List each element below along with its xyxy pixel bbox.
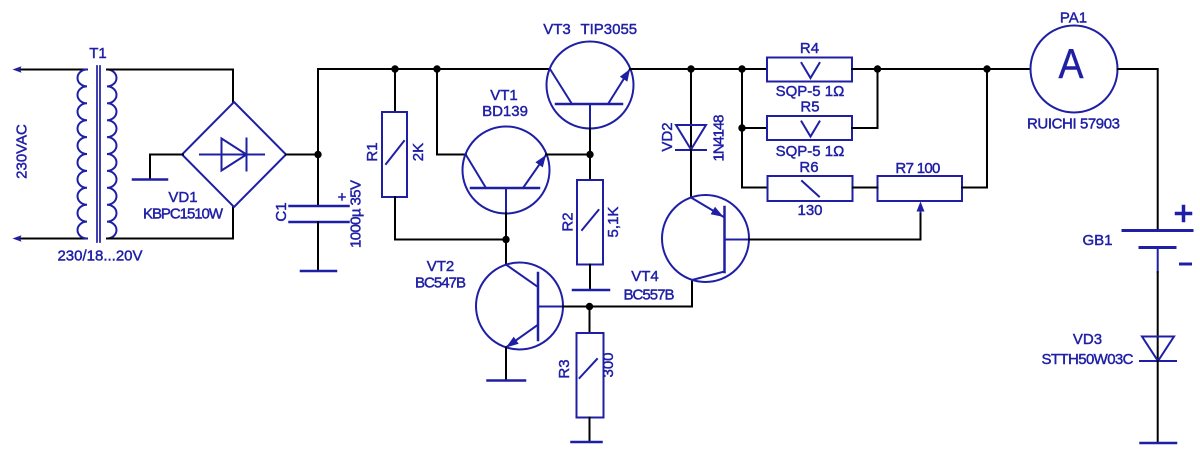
resistor R7 (878, 176, 963, 201)
ground R3 (572, 441, 602, 444)
node R5 branch top (738, 65, 745, 72)
svg-text:T1: T1 (89, 45, 107, 62)
transistor VT4 (662, 195, 749, 282)
node VT1 base (502, 236, 509, 243)
wire PA1 right to battery (1118, 69, 1158, 229)
label GB1 minus (1181, 263, 1191, 266)
svg-text:C1: C1 (273, 202, 290, 221)
svg-text:SQP-5 1Ω: SQP-5 1Ω (776, 143, 845, 160)
arrow R7 wiper (920, 206, 922, 212)
wire VT1 base lead (505, 213, 507, 265)
ammeter PA1 (1031, 26, 1118, 113)
svg-text:TIP3055: TIP3055 (580, 21, 637, 38)
transistor VT1 (463, 127, 550, 214)
resistor R1 (382, 112, 407, 197)
svg-text:A: A (1059, 40, 1084, 87)
svg-text:R2: R2 (560, 212, 577, 231)
svg-text:R7 100: R7 100 (895, 160, 940, 177)
svg-text:RUICHI 57903: RUICHI 57903 (1027, 116, 1120, 133)
resistor R3 (577, 333, 604, 418)
wire R3 bottom (589, 418, 591, 441)
svg-text:230/18...20V: 230/18...20V (57, 248, 142, 265)
svg-text:VT2: VT2 (427, 258, 455, 275)
svg-text:VT3: VT3 (543, 21, 571, 38)
node bridge output (314, 151, 321, 158)
node R5 left (738, 124, 745, 131)
wire top rail right (852, 68, 1031, 70)
ground R2 (573, 289, 609, 292)
svg-text:1N4148: 1N4148 (711, 115, 728, 162)
svg-text:5,1K: 5,1K (605, 207, 622, 238)
svg-text:STTH50W03C: STTH50W03C (1042, 351, 1134, 368)
transformer T1 secondary winding (107, 70, 117, 239)
transformer T1 primary winding (77, 70, 87, 239)
wire R2 bottom (589, 265, 591, 289)
svg-text:KBPC1510W: KBPC1510W (143, 206, 224, 223)
ground C1 (301, 270, 336, 273)
wire R3 top lead (589, 307, 591, 334)
wire GB1 to VD3 (1157, 272, 1159, 361)
svg-text:VD3: VD3 (1073, 331, 1102, 348)
node R1 top (391, 65, 398, 72)
label GB1 plus (1177, 212, 1191, 216)
node VD2 top (687, 65, 694, 72)
wire VT3 base lead (589, 129, 591, 155)
wire VT1 emitter lead (546, 154, 590, 156)
wire primary top lead (19, 69, 87, 71)
node VT3 base (586, 151, 593, 158)
wire R2 top lead (589, 155, 591, 181)
diode VD3 (1142, 337, 1174, 362)
wire VD2 anode lead (690, 69, 692, 150)
transistor VT3 (547, 42, 634, 129)
svg-text:2K: 2K (410, 143, 427, 161)
svg-text:130: 130 (797, 202, 822, 219)
wire plus riser x=318 (317, 69, 319, 206)
wire bridge plus lead (286, 154, 318, 156)
wire bridge minus lead to ground (150, 155, 183, 179)
svg-text:GB1: GB1 (1082, 232, 1112, 249)
svg-text:BC547B: BC547B (415, 275, 466, 292)
capacitor C1 (290, 205, 349, 208)
svg-text:BC557B: BC557B (624, 287, 675, 304)
wire VD3 cathode lead (1157, 361, 1159, 442)
wire R5 R6 left branch (742, 69, 767, 188)
svg-text:230VAC: 230VAC (13, 124, 30, 179)
svg-text:R5: R5 (800, 99, 819, 116)
ground VT2 (488, 379, 526, 382)
resistor R6 (768, 176, 853, 201)
wire VD2 cathode lead (690, 150, 692, 198)
transistor VT2 (476, 263, 563, 350)
wire R1 top lead (394, 69, 396, 112)
ground bridge minus (133, 178, 167, 181)
svg-text:1000µ 35V: 1000µ 35V (348, 180, 365, 248)
wire top rail mid (630, 68, 767, 70)
wire VT2 base row (563, 281, 692, 307)
svg-text:BD139: BD139 (482, 103, 528, 120)
wire R5 left lead (742, 127, 767, 129)
svg-text:R1: R1 (364, 142, 381, 161)
node R7 right (983, 65, 990, 72)
svg-text:R6: R6 (799, 159, 818, 176)
wire R6 to R7 (853, 187, 878, 189)
svg-text:+: + (338, 189, 347, 206)
transformer T1 core (96, 66, 98, 242)
bridge VD1 inner diode (200, 154, 264, 156)
svg-text:VT4: VT4 (631, 268, 659, 285)
svg-text:VT1: VT1 (490, 87, 518, 104)
svg-text:R3: R3 (556, 359, 573, 378)
wire VT1 collector drop (437, 69, 466, 155)
resistor R5 (767, 116, 852, 140)
wire primary bottom lead (19, 238, 87, 240)
battery GB1 (1123, 229, 1192, 232)
wire secondary top to bridge (107, 70, 233, 103)
svg-text:VD1: VD1 (168, 189, 197, 206)
svg-text:VD2: VD2 (659, 122, 676, 151)
node R5 right (874, 65, 881, 72)
wire VT4 base row to R7 wiper (749, 212, 921, 240)
node R3 top (586, 303, 593, 310)
wire top rail left (318, 68, 550, 70)
wire R1 bottom to VT1 base node (395, 197, 506, 240)
arrow primary top (13, 66, 22, 72)
node VT1 collector rail (433, 65, 440, 72)
wire VT2 emitter to ground (505, 347, 507, 379)
wire C1 bottom (317, 222, 319, 269)
svg-text:300: 300 (600, 352, 617, 377)
wire R7 right lead (962, 69, 987, 188)
ground VD3 (1141, 442, 1177, 445)
bridge rectifier VD1 diamond (182, 102, 286, 207)
wire R5 right lead (852, 69, 878, 128)
diode VD2 (676, 125, 706, 150)
resistor R4 (767, 58, 852, 82)
resistor R2 (577, 180, 603, 265)
svg-text:R4: R4 (800, 40, 819, 57)
svg-text:PA1: PA1 (1060, 10, 1087, 27)
svg-text:SQP-5 1Ω: SQP-5 1Ω (776, 83, 845, 100)
arrow primary bottom (13, 235, 22, 241)
wire secondary bottom to bridge (107, 207, 233, 239)
